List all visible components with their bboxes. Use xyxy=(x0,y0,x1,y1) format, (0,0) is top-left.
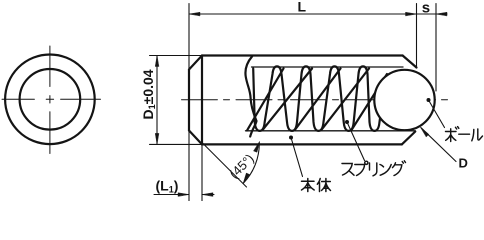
dimension L1 left arrow xyxy=(178,193,189,197)
svg-text:D1±0.04: D1±0.04 xyxy=(140,69,157,119)
body top edge xyxy=(202,54,403,56)
body right chamfer top xyxy=(403,56,417,68)
glyph hon xyxy=(302,179,315,192)
dimension D1 line xyxy=(156,56,158,145)
45 arc top arrow xyxy=(254,142,260,153)
extension line right x416.5 xyxy=(416,4,418,68)
extension line x202 lower xyxy=(201,144,203,201)
body left face xyxy=(188,70,190,131)
side view centerline xyxy=(182,99,448,101)
dimension s line xyxy=(417,13,448,15)
end view horizontal centerline xyxy=(2,98,101,100)
leader D line xyxy=(421,128,456,162)
label hontai (body) drawn glyphs xyxy=(302,179,331,192)
bore top line xyxy=(252,66,404,68)
extension line left x189 xyxy=(188,4,190,202)
dimension D1 top arrow xyxy=(155,56,159,67)
leader D arrow xyxy=(420,127,429,137)
dimension L right arrow xyxy=(406,12,417,16)
end view vertical centerline xyxy=(49,46,51,154)
leader hontai dot xyxy=(289,136,293,140)
end view outer circle xyxy=(5,55,95,145)
label D1 +-0.04 rotated xyxy=(140,69,157,119)
glyph tai xyxy=(317,179,330,192)
extension line s x436 xyxy=(435,4,437,92)
dimension L1 line right xyxy=(202,194,214,196)
leader ball line xyxy=(429,100,445,128)
dimension L left arrow xyxy=(189,12,200,16)
leader hontai line xyxy=(291,138,303,177)
D1 extension bottom xyxy=(150,143,203,145)
end view inner circle xyxy=(20,69,81,130)
spring back line 2 xyxy=(263,69,313,131)
label booru (ball) drawn glyphs xyxy=(446,127,483,142)
D1 extension top xyxy=(150,55,203,57)
spring back line 3 xyxy=(295,69,341,131)
dimension L1 line left xyxy=(154,194,189,196)
45 degree chamfer indicator line xyxy=(202,143,247,188)
glyph su xyxy=(342,164,354,176)
svg-text:(L1): (L1) xyxy=(156,178,179,195)
spring back line 4 xyxy=(321,69,369,131)
svg-text:D: D xyxy=(459,156,468,171)
body bottom edge xyxy=(202,143,402,145)
end view center cross xyxy=(46,96,53,103)
glyph ru xyxy=(472,129,483,141)
glyph bo xyxy=(446,127,459,142)
body right chamfer bottom xyxy=(402,132,416,145)
glyph ri xyxy=(370,163,377,176)
glyph gu xyxy=(393,161,406,176)
ball xyxy=(374,70,434,130)
bore bottom line xyxy=(246,130,416,132)
dimension s right arrow xyxy=(436,12,447,16)
dimension D1 bottom arrow xyxy=(155,133,159,144)
spring front zigzag coil xyxy=(253,66,381,130)
body chamfer circle projection line xyxy=(201,56,203,145)
leader ball dot xyxy=(427,98,431,102)
spring back line 5 xyxy=(352,74,388,130)
body left chamfer top xyxy=(189,56,202,70)
dimension L line xyxy=(189,13,417,15)
svg-text:L: L xyxy=(298,0,307,15)
dimension L1 right arrow xyxy=(202,193,213,197)
body left chamfer bottom xyxy=(189,131,202,145)
glyph n xyxy=(380,165,391,176)
spring back line 1 xyxy=(247,69,284,131)
label (45deg) rotated xyxy=(226,151,257,182)
svg-text:s: s xyxy=(422,0,430,17)
45 arc bottom arrow xyxy=(243,173,250,184)
glyph pu xyxy=(355,161,368,175)
label supuringu (spring) drawn glyphs xyxy=(342,161,406,176)
45 degree arc xyxy=(244,143,260,184)
leader spring line xyxy=(347,122,365,161)
leader spring dot xyxy=(345,120,349,124)
glyph chouon xyxy=(459,133,470,135)
spring end curl xyxy=(245,57,256,137)
